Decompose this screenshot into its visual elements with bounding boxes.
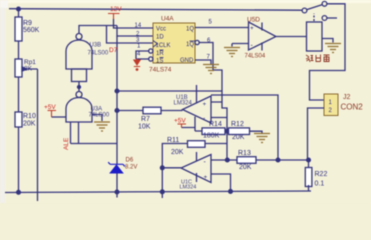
svg-text:10K: 10K — [138, 124, 151, 131]
node junction feedback bottom — [115, 190, 119, 194]
op-amp U5D body — [249, 22, 277, 50]
svg-text:180K: 180K — [203, 133, 220, 140]
wire U5D output to relay — [276, 36, 307, 38]
wire Rp1 wiper — [27, 69, 38, 201]
wire U1B feedback to R13 node — [211, 95, 278, 160]
svg-text:20K: 20K — [23, 121, 36, 128]
ground U3A — [94, 122, 110, 131]
resistor R7 wire right to U1B output — [161, 110, 183, 112]
wire +5V to U3A left — [52, 116, 67, 118]
wire R11 left down to rail — [162, 144, 187, 199]
svg-text:LM324: LM324 — [174, 101, 193, 107]
nand gate U3B body — [66, 40, 92, 69]
resistor R12 body — [229, 128, 250, 135]
overline 1R — [160, 49, 164, 51]
ground relay — [325, 44, 341, 53]
wire plus5 to R14 left — [182, 128, 203, 132]
switch blade — [307, 5, 323, 10]
wire pin7 GND — [195, 60, 211, 64]
resistor R22 body — [308, 160, 310, 168]
pin bubble 1R pin1 — [149, 49, 153, 53]
svg-text:1S: 1S — [156, 59, 163, 65]
svg-text:+: + — [250, 25, 254, 32]
svg-text:1D: 1D — [156, 35, 164, 41]
op-amp U1C power pins — [196, 152, 198, 182]
wire U1C output — [162, 167, 181, 169]
wire bottom rail — [5, 191, 311, 193]
svg-text:14: 14 — [135, 23, 142, 29]
node junction R7 tap — [115, 109, 119, 113]
ground U4A pin7 — [203, 65, 219, 74]
relay coil body — [307, 22, 323, 51]
nand gate U3A body — [66, 98, 92, 122]
wire J2 pin2 down to R13 node — [308, 108, 325, 160]
wire pin1 — [136, 51, 149, 59]
svg-text:R11: R11 — [167, 137, 179, 144]
svg-text:R22: R22 — [315, 171, 328, 178]
node junction on U3B input wire — [78, 86, 81, 89]
wire oscillator to U1B area — [117, 90, 222, 92]
wire pin5 1Q to U5D — [195, 27, 249, 29]
wire U5D minus input — [232, 44, 249, 47]
svg-text:U5D: U5D — [247, 17, 260, 24]
svg-text:Vcc: Vcc — [156, 27, 166, 33]
node junction pin6 net R13 — [225, 158, 229, 162]
svg-text:2K: 2K — [24, 66, 33, 73]
svg-text:1Q: 1Q — [186, 27, 194, 33]
svg-text:74LS00: 74LS00 — [89, 113, 110, 119]
resistor R14 body — [202, 128, 225, 135]
wire top rail — [9, 9, 302, 11]
op-amp U1B body mirrored — [183, 96, 212, 123]
svg-text:20K: 20K — [232, 134, 245, 141]
wire pin6 down — [199, 43, 227, 161]
svg-text:0.1: 0.1 — [315, 181, 325, 188]
resistor R7 body — [143, 107, 161, 114]
svg-text:R14: R14 — [209, 121, 222, 128]
svg-text:R9: R9 — [23, 20, 32, 27]
op-amp U1B power pins — [195, 85, 197, 131]
node junction R22 top — [307, 158, 311, 162]
node junction chain bottom — [17, 190, 21, 194]
wire switch lower stub — [327, 17, 337, 19]
nand gate U3B output bubble — [76, 34, 82, 40]
svg-text:8.2V: 8.2V — [125, 165, 137, 171]
node junction U1C output — [160, 166, 164, 170]
svg-text:74LS74: 74LS74 — [149, 67, 172, 74]
node junction oscillator wire — [115, 89, 119, 93]
relay linkage dashed — [313, 14, 315, 22]
svg-text:D6: D6 — [126, 158, 134, 164]
svg-text:12V: 12V — [110, 6, 122, 13]
svg-text:+: + — [204, 174, 208, 181]
op-amp U1C body mirrored — [181, 155, 211, 183]
node junction plus input rail — [229, 190, 233, 194]
node junction R14 R12 — [225, 129, 229, 133]
wire oscillator feedback vertical — [116, 36, 118, 198]
flip-flop U4A 74LS74 body — [153, 23, 195, 63]
svg-text:560K: 560K — [23, 27, 40, 34]
node junction feedback R13 — [276, 158, 280, 162]
resistor Rp1 potentiometer — [15, 59, 22, 77]
op-amp U5D power bars — [261, 23, 263, 51]
svg-text:R10: R10 — [23, 113, 36, 120]
zener diode D6 — [108, 162, 125, 173]
wire U1C plus input down to rail — [211, 174, 231, 192]
resistor R11 body — [188, 141, 206, 148]
overline 1S — [160, 57, 164, 59]
svg-text:LM324: LM324 — [180, 185, 197, 191]
wire U3A input legs — [71, 122, 118, 144]
wire left chain vertical — [18, 9, 20, 192]
wire R12 to ground — [250, 131, 263, 133]
svg-text:20K: 20K — [239, 164, 252, 171]
nand gate U3B input box — [72, 69, 87, 82]
svg-text:74LS04: 74LS04 — [245, 54, 266, 60]
node junction R11 rail — [160, 190, 164, 194]
svg-text:J2: J2 — [343, 94, 351, 101]
pin bubble 1S pin4 — [149, 57, 153, 61]
resistor R13 body — [237, 157, 256, 164]
resistor R9 — [15, 17, 22, 41]
wire U1B input stubs — [211, 102, 227, 118]
wire U3B output up and right — [79, 26, 117, 34]
svg-text:+: + — [203, 101, 207, 108]
ground U5D minus input — [224, 48, 240, 57]
svg-text:R7: R7 — [141, 116, 150, 123]
wire U3B inputs to U3A output — [78, 82, 80, 92]
svg-text:U4A: U4A — [161, 16, 174, 23]
svg-text:20K: 20K — [171, 149, 184, 156]
label relay (hand-drawn CJK strokes) — [306, 55, 330, 63]
ground R12 — [254, 134, 270, 143]
clock wedge pin 3 — [153, 41, 158, 48]
svg-text:R12: R12 — [231, 121, 244, 128]
wire pin14 Vcc — [114, 19, 154, 28]
wire R11 right — [205, 143, 227, 145]
wire relay to ground — [322, 39, 333, 43]
wire to 1D — [117, 26, 153, 37]
svg-text:1R: 1R — [156, 51, 164, 57]
switch pole contact — [302, 8, 307, 13]
connector J2 body — [324, 94, 338, 116]
wire switch upper to right and down to J2 pin1 — [310, 4, 346, 100]
wire U1C minus input R13 line — [211, 159, 308, 161]
switch throw contact upper — [322, 1, 327, 6]
switch throw contact lower — [322, 16, 327, 21]
svg-text:GND: GND — [180, 58, 194, 64]
wire to 1CLK — [107, 26, 154, 44]
svg-text:1Q: 1Q — [186, 42, 194, 48]
svg-text:74LS00: 74LS00 — [88, 51, 109, 57]
overline 1Qbar — [190, 40, 196, 42]
wire pin4 — [136, 58, 149, 60]
svg-text:R13: R13 — [238, 150, 251, 157]
pin bubble 1Q bar pin6 — [195, 40, 199, 44]
svg-text:ALE: ALE — [63, 137, 70, 150]
svg-text:CON2: CON2 — [341, 103, 364, 112]
resistor R7 wire left — [117, 110, 143, 112]
nand gate U3A output bubble — [76, 92, 82, 98]
wire R14 to R12 — [225, 130, 230, 132]
wire U3A right to ground — [92, 115, 102, 122]
svg-text:U3B: U3B — [90, 43, 102, 49]
node junction R9 top — [17, 7, 21, 11]
resistor R10 — [15, 112, 22, 127]
svg-text:D7: D7 — [109, 47, 118, 54]
